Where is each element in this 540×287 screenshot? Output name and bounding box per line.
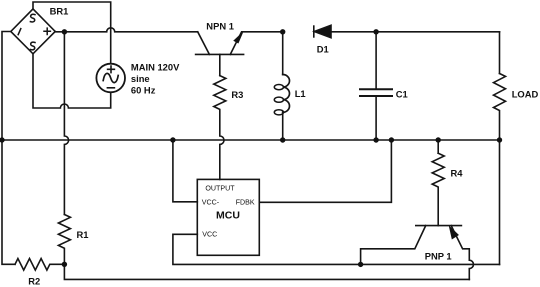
svg-text:MCU: MCU xyxy=(216,210,240,222)
svg-text:LOAD: LOAD xyxy=(512,89,539,100)
svg-text:R3: R3 xyxy=(231,89,243,100)
svg-text:VCC-: VCC- xyxy=(202,199,220,207)
svg-text:R2: R2 xyxy=(28,275,40,286)
svg-text:D1: D1 xyxy=(317,43,329,54)
svg-text:BR1: BR1 xyxy=(50,6,69,17)
svg-text:VCC: VCC xyxy=(202,230,217,238)
svg-text:60 Hz: 60 Hz xyxy=(131,85,156,96)
svg-text:PNP 1: PNP 1 xyxy=(425,250,452,261)
svg-text:NPN 1: NPN 1 xyxy=(206,21,234,32)
svg-text:FDBK: FDBK xyxy=(236,199,255,207)
svg-text:L1: L1 xyxy=(295,88,306,99)
svg-text:sine: sine xyxy=(131,73,150,84)
svg-text:C1: C1 xyxy=(396,88,408,99)
svg-text:MAIN 120V: MAIN 120V xyxy=(131,62,180,73)
svg-text:R4: R4 xyxy=(451,168,464,179)
svg-text:OUTPUT: OUTPUT xyxy=(205,184,235,192)
svg-text:R1: R1 xyxy=(77,229,89,240)
